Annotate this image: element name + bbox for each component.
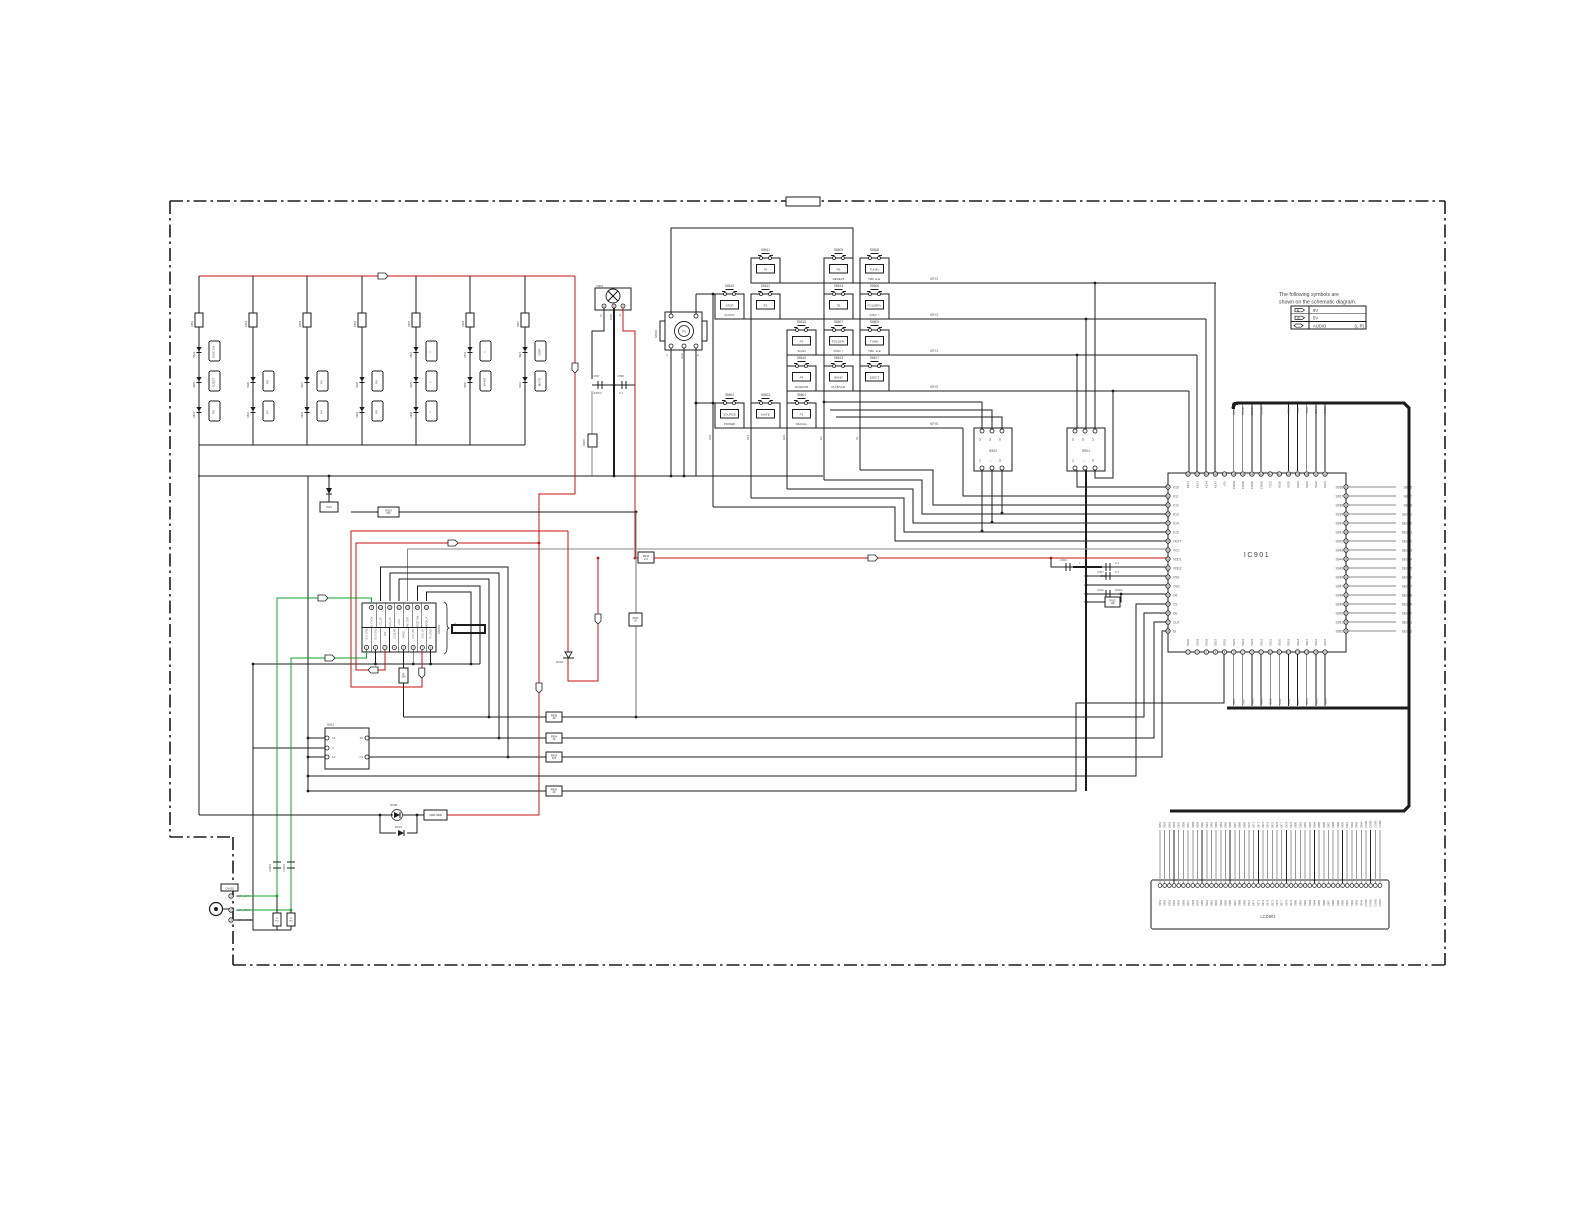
svg-text:S953: S953 <box>1167 821 1171 828</box>
svg-text:S911: S911 <box>1278 698 1282 705</box>
svg-text:CLOCK: CLOCK <box>724 313 734 317</box>
svg-text:K12: K12 <box>1173 503 1179 507</box>
svg-text:S942: S942 <box>1336 539 1344 543</box>
svg-text:S951: S951 <box>1158 821 1162 828</box>
svg-text:S958: S958 <box>1191 821 1195 828</box>
svg-text:STOP: STOP <box>725 304 733 308</box>
svg-text:S956: S956 <box>1181 821 1185 828</box>
svg-text:S967: S967 <box>1233 899 1237 906</box>
green inline connector CN851 <box>273 861 281 863</box>
svg-text:0.1: 0.1 <box>619 391 623 395</box>
capacitor C868 <box>621 381 623 389</box>
svg-text:S8609: S8609 <box>834 248 843 252</box>
key cap label P8 <box>263 371 274 391</box>
key cap label BAND <box>480 371 491 391</box>
svg-text:CN851: CN851 <box>268 863 272 872</box>
wire VDD2 with C907 <box>1086 575 1166 577</box>
svg-text:S826: S826 <box>246 381 250 388</box>
svg-text:S987: S987 <box>1327 821 1331 828</box>
svg-text:A: A <box>665 354 669 356</box>
resistor R868 <box>591 391 593 434</box>
wire K column K16 <box>750 319 752 498</box>
wire PNL-DATA long <box>408 549 1166 601</box>
svg-text:SG20: SG20 <box>1278 638 1282 646</box>
svg-text:COM3: COM3 <box>1250 407 1254 416</box>
svg-text:S835: S835 <box>355 411 359 418</box>
svg-text:KEY2: KEY2 <box>1186 481 1190 489</box>
svg-text:S975: S975 <box>1270 821 1274 828</box>
svg-text:S979: S979 <box>1289 821 1293 828</box>
svg-text:LCD_3V: LCD_3V <box>380 617 383 627</box>
svg-text:BAND: BAND <box>483 377 487 386</box>
wire encoder top-right <box>695 294 697 314</box>
svg-text:S970: S970 <box>1247 821 1251 828</box>
svg-text:R852: R852 <box>244 320 248 327</box>
svg-text:DISC ˅: DISC ˅ <box>834 349 844 353</box>
svg-text:S984: S984 <box>1312 899 1316 906</box>
svg-text:S8602: S8602 <box>725 393 734 397</box>
svg-text:SG15: SG15 <box>1323 638 1327 646</box>
svg-text:1K: 1K <box>552 737 555 741</box>
wire encoder top-left loop <box>671 228 853 314</box>
svg-text:R856: R856 <box>461 320 465 327</box>
svg-text:S964: S964 <box>1219 821 1223 828</box>
svg-text:S966: S966 <box>1228 899 1232 906</box>
IC901 top pin circles <box>1186 472 1190 476</box>
legend table <box>1291 306 1366 329</box>
svg-text:S952: S952 <box>1163 821 1167 828</box>
svg-text:R855: R855 <box>407 320 411 327</box>
svg-text:VDD2: VDD2 <box>1173 566 1182 570</box>
svg-text:R853: R853 <box>298 320 302 327</box>
svg-text:R868: R868 <box>582 439 586 446</box>
key switch diode D853 <box>250 407 255 412</box>
svg-text:K1: K1 <box>855 436 859 440</box>
svg-text:PANEL: PANEL <box>403 629 406 638</box>
wire encoder bottom pins to rail <box>670 348 672 476</box>
svg-text:KEY_IN: KEY_IN <box>421 629 424 638</box>
svg-text:K22: K22 <box>782 434 786 440</box>
svg-text:S979: S979 <box>1289 899 1293 906</box>
svg-text:EJECT: EJECT <box>870 376 880 380</box>
wire nested to IC bottom pin <box>308 654 1224 791</box>
svg-text:S8617: S8617 <box>870 356 879 360</box>
svg-text:S947: S947 <box>1336 584 1344 588</box>
svg-text:S822: S822 <box>409 351 413 358</box>
key cap label P4 <box>317 401 328 421</box>
svg-text:O6: O6 <box>1173 593 1177 597</box>
svg-text:P2: P2 <box>764 304 768 308</box>
switch block S911 <box>325 728 369 769</box>
svg-text:BAND: BAND <box>834 376 843 380</box>
pushbutton switch S8606 <box>860 294 889 319</box>
CN801 bottom pins <box>364 645 368 649</box>
svg-text:VSS: VSS <box>1173 575 1179 579</box>
svg-text:S963: S963 <box>1214 899 1218 906</box>
svg-text:S8608: S8608 <box>870 248 879 252</box>
svg-text:A5: A5 <box>360 736 364 740</box>
key switch diode D843 <box>467 347 472 352</box>
lamp pins <box>602 304 606 308</box>
encoder pins <box>669 314 673 318</box>
svg-text:S982: S982 <box>1303 821 1307 828</box>
svg-text:AUDIO: AUDIO <box>1313 323 1327 328</box>
PANEL bracket <box>444 602 450 654</box>
svg-text:+9V: +9V <box>384 631 387 636</box>
key switch diode D847 <box>304 377 309 382</box>
wire gray drop to CE bus <box>635 512 637 717</box>
svg-text:SOURCE: SOURCE <box>723 413 736 417</box>
svg-text:P1: P1 <box>800 413 804 417</box>
svg-text:TA: TA <box>764 268 768 272</box>
wire pin row5 to encoder line <box>696 402 725 404</box>
svg-text:S8616: S8616 <box>797 356 806 360</box>
key matrix column wires <box>198 276 200 445</box>
svg-text:S992: S992 <box>1350 899 1354 906</box>
svg-text:TST2: TST2 <box>1268 481 1272 488</box>
svg-text:S901: S901 <box>1287 407 1291 414</box>
svg-text:S952: S952 <box>1163 899 1167 906</box>
svg-text:1K: 1K <box>634 620 637 623</box>
capacitor C867 <box>597 381 599 389</box>
svg-text:REPEAT: REPEAT <box>833 277 845 281</box>
svg-text:S943: S943 <box>1336 548 1344 552</box>
svg-text:S951: S951 <box>1158 899 1162 906</box>
svg-text:COM2: COM2 <box>1369 899 1373 907</box>
svg-text:S830: S830 <box>463 381 467 388</box>
wire vertical x253 <box>252 664 254 920</box>
svg-text:DISC ˄: DISC ˄ <box>870 313 880 317</box>
svg-text:(L-R): (L-R) <box>1354 323 1364 328</box>
svg-text:S989: S989 <box>1336 821 1340 828</box>
fuse C908 <box>424 810 447 820</box>
svg-text:D904: D904 <box>556 660 564 664</box>
svg-text:2.2: 2.2 <box>644 557 648 561</box>
switch block S902 <box>974 428 1012 471</box>
wire green AUX R <box>237 650 367 910</box>
svg-text:SG31: SG31 <box>1323 481 1327 489</box>
svg-text:LCD_CK: LCD_CK <box>389 617 392 627</box>
svg-text:P5: P5 <box>212 410 216 414</box>
key switch diode D846 <box>250 377 255 382</box>
svg-text:K11: K11 <box>1173 494 1179 498</box>
key switch diode D842 <box>413 347 418 352</box>
key switch diode D845 <box>196 377 201 382</box>
IC901 bottom pin circles <box>1186 650 1190 654</box>
svg-text:˂: ˂ <box>483 351 487 353</box>
wire capacitor link <box>592 384 635 386</box>
svg-text:K15: K15 <box>1173 530 1179 534</box>
wires IC901 bottom pins to mid bus <box>1233 654 1235 706</box>
wire VSS <box>1086 584 1166 586</box>
svg-text:K16: K16 <box>1173 485 1179 489</box>
key cap label &#708; <box>426 341 437 361</box>
svg-text:W: W <box>618 314 622 317</box>
pushbutton switch S8616 <box>787 366 816 391</box>
svg-text:S914: S914 <box>1305 698 1309 705</box>
pushbutton switch S8607 <box>824 330 853 355</box>
svg-text:COM2: COM2 <box>1250 481 1254 490</box>
svg-text:VDD1: VDD1 <box>1173 557 1182 561</box>
svg-text:D908: D908 <box>390 803 398 807</box>
svg-text:K16: K16 <box>746 434 750 440</box>
svg-text:PL-GND: PL-GND <box>430 629 433 639</box>
pushbutton switch S8602 <box>715 403 744 428</box>
svg-text:S949: S949 <box>1336 602 1344 606</box>
key cap label DISC CH <box>209 341 220 361</box>
svg-text:S911: S911 <box>327 723 334 727</box>
CN801 bottom stubs <box>375 650 377 664</box>
wire key row3 bus KEY4 <box>787 354 1197 356</box>
svg-text:GND: GND <box>680 353 684 359</box>
svg-text:COM4: COM4 <box>1378 820 1382 828</box>
wire red branch to backlight <box>356 543 539 670</box>
svg-text:˃: ˃ <box>429 381 433 383</box>
svg-text:SG22: SG22 <box>1259 638 1263 646</box>
svg-text:S961: S961 <box>1205 899 1209 906</box>
svg-text:˄: ˄ <box>429 351 433 353</box>
svg-text:MODE-SW: MODE-SW <box>416 615 419 628</box>
svg-text:10k: 10k <box>1110 601 1115 605</box>
svg-text:P6: P6 <box>375 380 379 384</box>
label boxes on long wires <box>546 712 562 722</box>
wire S901 pin1 to IC K16 <box>1077 470 1166 487</box>
svg-text:CLK: CLK <box>1173 620 1180 624</box>
svg-text:S954: S954 <box>1172 899 1176 906</box>
wire S901 ground thick <box>1085 470 1087 791</box>
svg-text:S8614: S8614 <box>834 284 843 288</box>
flag on red KEY_IN <box>419 668 425 678</box>
svg-text:S8615: S8615 <box>797 320 806 324</box>
svg-text:S972: S972 <box>1256 821 1260 828</box>
wire lamp gnd thick <box>613 308 615 476</box>
svg-text:SG29: SG29 <box>1195 638 1199 646</box>
resistor R909 below CN801 <box>403 650 405 668</box>
svg-text:RECALL: RECALL <box>796 422 808 426</box>
svg-text:B: B <box>696 354 700 356</box>
svg-text:S990: S990 <box>1341 899 1345 906</box>
svg-text:S991: S991 <box>1345 821 1349 828</box>
svg-text:FOLDER+: FOLDER+ <box>868 304 882 308</box>
svg-text:KEY2: KEY2 <box>930 277 938 281</box>
svg-text:KEY4: KEY4 <box>930 349 938 353</box>
wire key row4 bus KEY5 <box>787 390 1189 392</box>
svg-text:S8603: S8603 <box>761 393 770 397</box>
svg-text:W6: W6 <box>387 511 391 515</box>
svg-text:S903: S903 <box>1305 407 1309 414</box>
svg-text:0.1: 0.1 <box>1115 561 1119 565</box>
svg-text:COM2: COM2 <box>1241 407 1245 416</box>
microcontroller IC901 body <box>1168 473 1346 652</box>
svg-text:COM4: COM4 <box>1378 899 1382 907</box>
wire K column K3 <box>823 283 825 480</box>
svg-text:S977: S977 <box>1280 899 1284 906</box>
svg-text:S940: S940 <box>1336 521 1344 525</box>
svg-text:TEST: TEST <box>1173 539 1181 543</box>
svg-text:SCAN: SCAN <box>797 349 805 353</box>
svg-text:S976: S976 <box>1275 899 1279 906</box>
svg-text:S993: S993 <box>1355 899 1359 906</box>
svg-text:S8605: S8605 <box>870 320 879 324</box>
wires CN801 nested data lines <box>381 567 508 757</box>
thick top bus <box>1170 403 1409 811</box>
svg-text:1K: 1K <box>552 716 555 720</box>
svg-text:S970: S970 <box>1247 899 1251 906</box>
svg-text:S967: S967 <box>1233 821 1237 828</box>
svg-text:KEY5: KEY5 <box>1214 481 1218 489</box>
key matrix top resistors <box>195 313 203 327</box>
wire red below Q904 <box>568 558 598 681</box>
svg-text:S906: S906 <box>1232 698 1236 705</box>
svg-text:W: W <box>1297 316 1300 320</box>
svg-text:VCC: VCC <box>1173 548 1180 552</box>
svg-text:MUTE: MUTE <box>761 413 770 417</box>
svg-text:LCD5.8V: LCD5.8V <box>393 629 396 639</box>
svg-text:S983: S983 <box>1308 821 1312 828</box>
wire DIMM line <box>351 511 636 513</box>
svg-text:P8: P8 <box>375 410 379 414</box>
pushbutton switch S8603 <box>751 403 780 428</box>
svg-text:S905: S905 <box>1323 407 1327 414</box>
svg-text:D907: D907 <box>395 825 403 829</box>
diode D907 loop <box>380 815 396 833</box>
wire CE long <box>404 613 1166 717</box>
svg-text:K14: K14 <box>1173 521 1179 525</box>
svg-text:S827: S827 <box>300 381 304 388</box>
wire key row5 bus KEY6 <box>715 427 963 429</box>
svg-text:TRK ►►: TRK ►► <box>868 277 881 281</box>
svg-text:S8601: S8601 <box>797 393 806 397</box>
svg-text:SG35: SG35 <box>1287 481 1291 489</box>
svg-text:shown on the schematic diagram: shown on the schematic diagram. <box>1279 300 1356 306</box>
svg-text:SG32: SG32 <box>1314 481 1318 489</box>
svg-text:S957: S957 <box>1186 899 1190 906</box>
svg-text:+5LV: +5LV <box>398 619 401 625</box>
svg-text:KEY5: KEY5 <box>930 385 938 389</box>
svg-text:COM3: COM3 <box>1373 820 1377 828</box>
svg-text:P6: P6 <box>837 268 841 272</box>
wire CS long <box>308 604 1166 776</box>
resistor R952 <box>290 910 292 913</box>
svg-text:KEY4: KEY4 <box>1205 481 1209 489</box>
pushbutton switch S8610 <box>715 294 744 319</box>
key switch diode D851 <box>522 377 527 382</box>
svg-text:S907: S907 <box>1241 698 1245 705</box>
svg-text:S972: S972 <box>1256 899 1260 906</box>
svg-text:SG30: SG30 <box>1186 638 1190 646</box>
svg-text:S955: S955 <box>1177 899 1181 906</box>
long ground rail <box>198 475 823 477</box>
stair wires from key columns to IC901 <box>713 507 1166 541</box>
svg-text:S8611: S8611 <box>761 248 770 252</box>
svg-text:GND: GND <box>609 314 613 320</box>
svg-text:S969: S969 <box>1242 899 1246 906</box>
svg-text:S965: S965 <box>1224 821 1228 828</box>
svg-text:S994: S994 <box>1359 899 1363 906</box>
svg-text:TUNE+: TUNE+ <box>870 268 880 272</box>
svg-text:S958: S958 <box>1191 899 1195 906</box>
svg-text:K10: K10 <box>1223 481 1227 486</box>
svg-text:S987: S987 <box>1327 899 1331 906</box>
wire red lamp pin3 to VCC rail <box>623 308 635 558</box>
svg-text:S832: S832 <box>192 411 196 418</box>
svg-text:S971: S971 <box>1252 821 1256 828</box>
svg-text:A: A <box>332 746 334 750</box>
key switch diode D849 <box>413 377 418 382</box>
svg-text:EJECT: EJECT <box>212 377 216 387</box>
svg-text:COM3: COM3 <box>1241 481 1245 490</box>
svg-text:909: 909 <box>402 676 407 679</box>
svg-text:S946: S946 <box>1336 575 1344 579</box>
svg-text:S936: S936 <box>1336 485 1344 489</box>
svg-text:KEY3: KEY3 <box>1195 481 1199 489</box>
svg-text:KEY3: KEY3 <box>930 313 938 317</box>
wires above S902 <box>824 402 982 429</box>
svg-text:S992: S992 <box>1350 821 1354 828</box>
frame top tab <box>786 197 820 206</box>
key cap label P8 <box>372 401 383 421</box>
svg-text:S964: S964 <box>1219 899 1223 906</box>
key switch diode D852 <box>196 407 201 412</box>
svg-text:P4: P4 <box>800 376 804 380</box>
svg-text:CS: CS <box>1173 602 1177 606</box>
svg-text:1K: 1K <box>552 790 555 794</box>
svg-text:C912: C912 <box>1097 588 1104 592</box>
svg-text:S969: S969 <box>1242 821 1246 828</box>
key switch diode D855 <box>359 407 364 412</box>
svg-text:9V: 9V <box>1313 308 1318 313</box>
svg-text:S8606: S8606 <box>870 284 879 288</box>
wires below S902 <box>981 470 983 531</box>
diode D908 <box>394 812 400 818</box>
svg-text:S982: S982 <box>1303 899 1307 906</box>
svg-text:AUX_L(Y): AUX_L(Y) <box>236 894 250 898</box>
svg-text:S989: S989 <box>1336 899 1340 906</box>
wire green AUX L <box>237 598 372 896</box>
pushbutton switch S8613 <box>824 366 853 391</box>
wires IC901 top pins to top power bus <box>1233 404 1235 471</box>
svg-text:COM1: COM1 <box>1364 820 1368 828</box>
svg-text:FOLDER-: FOLDER- <box>832 340 845 344</box>
pushbutton switch S8601 <box>787 403 816 428</box>
svg-text:S945: S945 <box>1336 566 1344 570</box>
LCD pin comb <box>1159 830 1161 883</box>
svg-text:S971: S971 <box>1252 899 1256 906</box>
svg-text:S986: S986 <box>1322 821 1326 828</box>
svg-text:5V: 5V <box>1313 316 1318 321</box>
svg-text:S975: S975 <box>1270 899 1274 906</box>
svg-text:S974: S974 <box>1266 821 1270 828</box>
key switch diode D850 <box>467 377 472 382</box>
svg-text:S836: S836 <box>409 411 413 418</box>
svg-text:SG19: SG19 <box>1287 638 1291 646</box>
wire KEY6 to IC901 <box>963 428 1166 496</box>
key cap label P7 <box>263 401 274 421</box>
pushbutton switch S8617 <box>860 366 889 391</box>
svg-text:COM2: COM2 <box>1369 820 1373 828</box>
svg-text:S960: S960 <box>1200 821 1204 828</box>
svg-text:DI: DI <box>1173 629 1176 633</box>
wire red +9V loop to CN801 <box>351 531 568 687</box>
pushbutton switch S8615 <box>787 330 816 355</box>
svg-text:S973: S973 <box>1261 821 1265 828</box>
svg-text:S955: S955 <box>1177 821 1181 828</box>
svg-text:S939: S939 <box>1336 512 1344 516</box>
key switch diode D841 <box>196 347 201 352</box>
svg-text:S957: S957 <box>1186 821 1190 828</box>
svg-text:S916: S916 <box>1324 698 1328 705</box>
CN801 top pins <box>370 605 374 609</box>
